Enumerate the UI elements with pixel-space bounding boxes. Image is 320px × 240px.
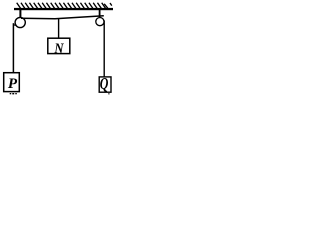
svg-text:P: P [8, 76, 18, 92]
box P [4, 73, 20, 92]
string: horizontal between pulleys [21, 16, 104, 19]
box Q [99, 77, 111, 92]
svg-text:N: N [53, 40, 64, 56]
right pulley wheel [96, 18, 104, 26]
scan tick under box Q [108, 93, 109, 94]
string: left pulley to P [13, 23, 15, 72]
ceiling [14, 8, 113, 10]
left pulley wheel [15, 17, 25, 27]
box N [48, 38, 70, 53]
left pulley mount stub [19, 10, 21, 18]
scan ticks under box P [10, 93, 12, 94]
right pulley mount stub [99, 10, 101, 17]
svg-text:Q: Q [100, 75, 109, 94]
string joint nub at left pulley [13, 24, 16, 26]
ceiling hatching [17, 3, 112, 9]
string: right pulley to Q [104, 21, 105, 78]
string: to N [58, 19, 59, 39]
